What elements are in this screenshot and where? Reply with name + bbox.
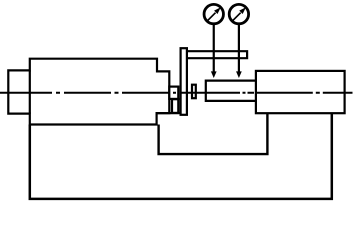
test mandrel: [206, 81, 257, 101]
dial indicator 1 body: [204, 4, 223, 23]
dial indicator stem 2: [238, 24, 240, 73]
probe arrowhead 1: [211, 71, 217, 78]
machine bed outer frame: [30, 113, 332, 199]
indicator stand column: [181, 48, 187, 115]
indicator arm (bracket): [188, 51, 247, 58]
headstock block with right spindle stub (outline): [8, 59, 169, 125]
probe arrowhead 2: [236, 71, 242, 78]
coupling block right of column: [192, 85, 196, 99]
headstock main body left edge: [29, 70, 31, 113]
bed bridge (inner cavity): [159, 113, 268, 154]
centerline (right segment, dash-dot): [256, 92, 353, 94]
dial indicator 1 needle: [208, 13, 216, 21]
dial indicator 2 body: [229, 4, 248, 23]
spindle flange plate: [169, 87, 178, 99]
tailstock block: [256, 71, 345, 113]
flange support leg: [172, 99, 178, 113]
cluster bottom line: [157, 112, 184, 114]
dial indicator 2 needle: [233, 13, 241, 21]
dial indicator stem 1: [213, 24, 215, 73]
centerline (left segment, dash-dot): [0, 92, 254, 94]
